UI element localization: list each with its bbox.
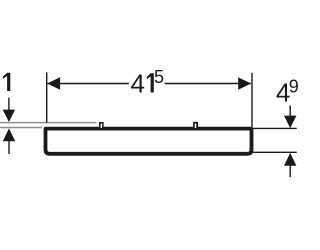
svg-text:9: 9	[289, 77, 299, 97]
svg-text:4: 4	[131, 69, 145, 99]
svg-text:5: 5	[154, 67, 164, 87]
